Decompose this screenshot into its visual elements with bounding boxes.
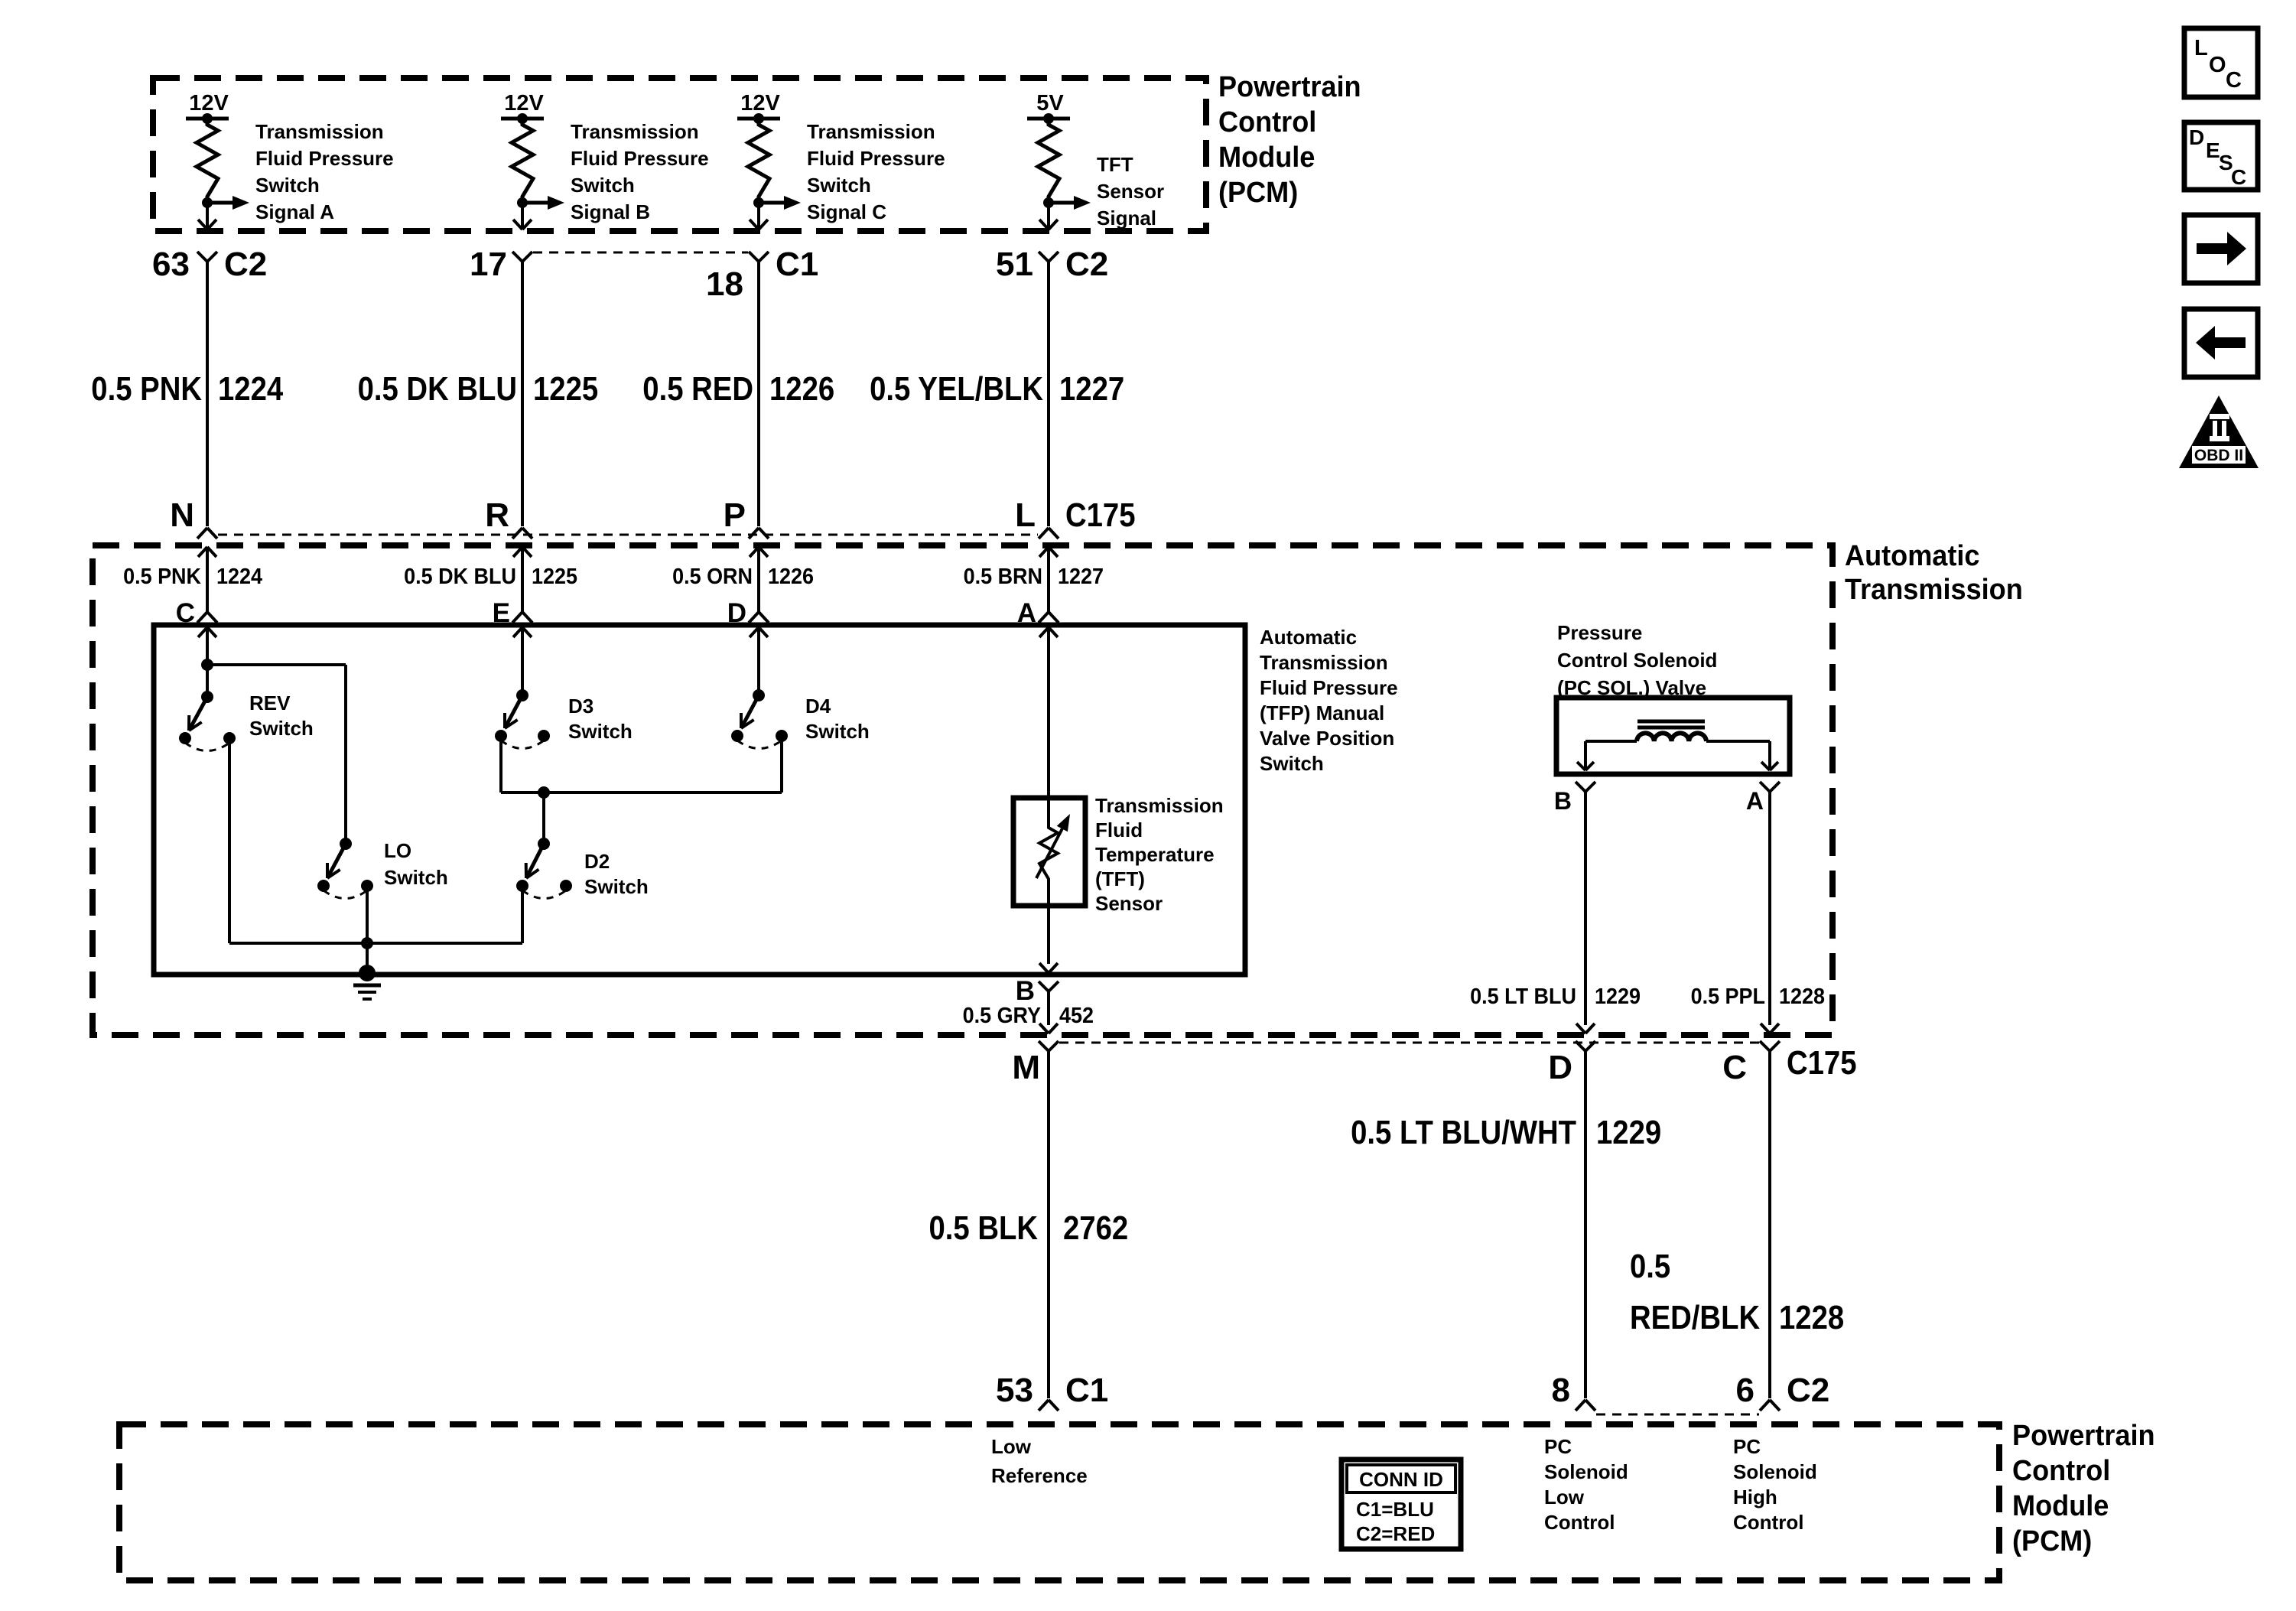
svg-text:Automatic: Automatic xyxy=(1845,540,1980,572)
switch D3 xyxy=(495,689,550,749)
svg-text:B: B xyxy=(1554,787,1572,815)
switch D2 xyxy=(516,838,572,899)
svg-text:C2=RED: C2=RED xyxy=(1356,1522,1435,1545)
svg-text:452: 452 xyxy=(1059,1004,1094,1028)
svg-text:(TFP) Manual: (TFP) Manual xyxy=(1260,701,1384,724)
label Transmission Fluid Pressure Switch Signal B xyxy=(571,120,709,223)
svg-text:Module: Module xyxy=(1218,142,1315,174)
svg-text:TFT: TFT xyxy=(1097,153,1133,176)
svg-text:Reference: Reference xyxy=(991,1464,1088,1487)
resistor R3 (pull-up) xyxy=(748,119,769,203)
switch REV xyxy=(179,691,236,751)
svg-text:E: E xyxy=(2206,138,2220,162)
svg-text:Transmission: Transmission xyxy=(571,120,699,143)
svg-text:Sensor: Sensor xyxy=(1095,892,1163,915)
svg-text:6: 6 xyxy=(1736,1372,1755,1409)
svg-text:O: O xyxy=(2209,53,2226,77)
svg-text:Solenoid: Solenoid xyxy=(1733,1460,1817,1483)
svg-text:1227: 1227 xyxy=(1059,370,1124,408)
svg-text:Switch: Switch xyxy=(384,866,448,889)
signal arrow (Signal A) xyxy=(207,196,249,210)
wire 0.5 DK BLU 1225 into transmission xyxy=(513,547,532,612)
svg-text:C2: C2 xyxy=(1787,1372,1829,1409)
svg-text:1225: 1225 xyxy=(533,370,598,408)
connector C2 pin 8 xyxy=(1552,1372,1595,1411)
svg-text:5V: 5V xyxy=(1036,91,1064,116)
svg-text:Powertrain: Powertrain xyxy=(2012,1420,2155,1452)
svg-text:Transmission: Transmission xyxy=(255,120,384,143)
icon OBD II triangle xyxy=(2179,395,2259,468)
svg-text:2762: 2762 xyxy=(1063,1209,1128,1247)
wire 0.5 LT BLU/WHT 1229 xyxy=(1584,1051,1587,1398)
label 0.5 RED/BLK 1228 xyxy=(1630,1248,1844,1336)
resistor R4 (pull-up) xyxy=(1038,119,1059,203)
label 0.5 LT BLU 1229 xyxy=(1470,984,1641,1009)
svg-text:Switch: Switch xyxy=(805,720,870,743)
svg-text:Control: Control xyxy=(2012,1455,2110,1487)
connector C2 dashed link line xyxy=(1596,1414,1759,1416)
label TFT Sensor Signal xyxy=(1097,153,1164,229)
wire 0.5 DK BLU 1225 xyxy=(521,262,524,526)
svg-text:12V: 12V xyxy=(504,91,544,116)
svg-text:Module: Module xyxy=(2012,1490,2109,1522)
svg-text:Transmission: Transmission xyxy=(1095,794,1224,817)
svg-text:1226: 1226 xyxy=(769,370,834,408)
svg-text:51: 51 xyxy=(996,246,1033,283)
node 5V supply (R4) xyxy=(1027,91,1070,124)
label 0.5 BLK 2762 xyxy=(929,1209,1129,1247)
svg-text:C175: C175 xyxy=(1787,1044,1857,1082)
svg-text:1228: 1228 xyxy=(1779,1299,1844,1336)
svg-text:CONN ID: CONN ID xyxy=(1359,1468,1443,1491)
icon DESC box xyxy=(2184,122,2258,190)
ground xyxy=(353,965,381,999)
svg-text:Temperature: Temperature xyxy=(1095,843,1215,866)
connector C1 dashed link line xyxy=(533,252,748,254)
svg-text:0.5 PNK: 0.5 PNK xyxy=(91,370,202,408)
svg-text:Signal A: Signal A xyxy=(255,200,334,223)
switch LO xyxy=(317,838,373,899)
PCM module box (bottom, dashed) xyxy=(119,1424,1999,1580)
PC solenoid valve box xyxy=(1556,698,1790,774)
wire bus to D2 feed xyxy=(542,792,545,844)
svg-text:D3: D3 xyxy=(568,695,594,718)
wire 0.5 PNK 1224 xyxy=(206,262,209,526)
svg-text:1227: 1227 xyxy=(1058,565,1104,589)
svg-text:L: L xyxy=(2194,36,2208,60)
svg-text:63: 63 xyxy=(152,246,190,283)
wire to PCM pin xyxy=(198,203,216,229)
svg-text:Valve Position: Valve Position xyxy=(1260,727,1394,750)
svg-text:Switch: Switch xyxy=(249,717,314,740)
node 12V supply (R2) xyxy=(501,91,544,124)
svg-text:Signal B: Signal B xyxy=(571,200,650,223)
svg-text:12V: 12V xyxy=(189,91,229,116)
svg-text:A: A xyxy=(1746,787,1764,815)
svg-text:Control: Control xyxy=(1218,106,1316,138)
connector C175 pin P xyxy=(724,496,769,539)
svg-text:0.5 ORN: 0.5 ORN xyxy=(672,565,753,589)
wire to PCM pin xyxy=(1039,203,1058,229)
svg-text:1226: 1226 xyxy=(768,565,814,589)
connector C1 pin 17 xyxy=(470,246,532,283)
icon LOC box xyxy=(2184,28,2258,97)
node junction to LO feed xyxy=(201,659,213,671)
wire 0.5 GRY 452 exits transmission xyxy=(1039,1024,1058,1033)
label 0.5 ORN 1226 xyxy=(672,565,814,589)
svg-text:C: C xyxy=(1722,1049,1747,1086)
wire 0.5 BRN 1227 into transmission xyxy=(1039,547,1058,612)
svg-text:D: D xyxy=(2189,125,2204,149)
svg-text:0.5 LT BLU: 0.5 LT BLU xyxy=(1470,984,1576,1009)
PCM module box (top, dashed) xyxy=(153,78,1206,231)
svg-text:N: N xyxy=(170,496,194,534)
svg-text:0.5 PPL: 0.5 PPL xyxy=(1691,984,1765,1009)
svg-text:(PCM): (PCM) xyxy=(1218,177,1298,209)
svg-text:D4: D4 xyxy=(805,695,831,718)
node junction bus to D2 xyxy=(538,786,550,799)
svg-text:0.5 LT BLU/WHT: 0.5 LT BLU/WHT xyxy=(1351,1114,1576,1151)
svg-text:1225: 1225 xyxy=(532,565,577,589)
connector C1 pin 18 xyxy=(706,246,818,303)
label Transmission Fluid Temperature (TFT) Sensor xyxy=(1095,794,1224,915)
svg-text:0.5: 0.5 xyxy=(1630,1248,1670,1285)
connector TFP pin C xyxy=(176,598,217,628)
svg-text:Switch: Switch xyxy=(807,174,871,197)
svg-text:Fluid Pressure: Fluid Pressure xyxy=(1260,676,1398,699)
PCM label (top right) xyxy=(1218,71,1361,209)
svg-text:Fluid Pressure: Fluid Pressure xyxy=(255,147,394,170)
Automatic Transmission box (dashed) xyxy=(93,545,1833,1035)
svg-text:D: D xyxy=(1548,1049,1572,1086)
svg-text:0.5 BRN: 0.5 BRN xyxy=(964,565,1042,589)
svg-text:0.5 BLK: 0.5 BLK xyxy=(929,1209,1039,1247)
connector C175 pin D xyxy=(1548,1041,1595,1086)
svg-text:Control Solenoid: Control Solenoid xyxy=(1557,649,1717,672)
wire 0.5 LT BLU 1229 xyxy=(1576,792,1595,1033)
connector C2 pin 63 xyxy=(152,246,267,283)
wire coil terminal B xyxy=(1577,741,1637,770)
connector C175 pin L xyxy=(1015,496,1059,539)
wire TFT to pin B with arrow xyxy=(1039,963,1058,973)
resistor R1 (pull-up) xyxy=(197,119,218,203)
svg-text:P: P xyxy=(724,496,746,534)
svg-text:Fluid Pressure: Fluid Pressure xyxy=(807,147,945,170)
node junction R4 output xyxy=(1043,197,1054,208)
label PC Solenoid Low Control xyxy=(1544,1435,1628,1534)
node junction R3 output xyxy=(753,197,764,208)
svg-text:1224: 1224 xyxy=(218,370,284,408)
node junction R2 output xyxy=(517,197,528,208)
connector C175 dashed link line (lower) xyxy=(1059,1042,1759,1044)
label Automatic Transmission Fluid Pressure (TFP) Manual Valve Position Switch xyxy=(1260,626,1398,775)
svg-text:B: B xyxy=(1016,976,1035,1006)
label PC Solenoid High Control xyxy=(1733,1435,1817,1534)
solenoid coil L1 xyxy=(1637,721,1706,741)
label 0.5 PPL 1228 xyxy=(1691,984,1825,1009)
label 0.5 PNK 1224 xyxy=(91,370,283,408)
svg-text:(PCM): (PCM) xyxy=(2012,1525,2092,1557)
TFT sensor box xyxy=(1013,798,1085,906)
connector C175 pin N xyxy=(170,496,217,539)
connector C2 pin 6 xyxy=(1736,1372,1830,1411)
svg-text:REV: REV xyxy=(249,692,291,714)
svg-text:8: 8 xyxy=(1552,1372,1570,1409)
svg-text:1224: 1224 xyxy=(216,565,262,589)
wire 0.5 RED 1226 xyxy=(757,262,760,526)
svg-text:RED/BLK: RED/BLK xyxy=(1630,1299,1760,1336)
svg-text:High: High xyxy=(1733,1486,1777,1508)
svg-text:Transmission: Transmission xyxy=(1260,651,1388,674)
svg-text:M: M xyxy=(1012,1049,1040,1086)
svg-text:PC: PC xyxy=(1544,1435,1572,1458)
wire C into TFP box xyxy=(198,627,216,697)
svg-text:0.5 PNK: 0.5 PNK xyxy=(123,565,201,589)
svg-text:LO: LO xyxy=(384,839,411,862)
svg-text:Sensor: Sensor xyxy=(1097,180,1164,203)
label C175 xyxy=(1065,496,1136,534)
svg-text:Fluid: Fluid xyxy=(1095,819,1143,841)
svg-text:0.5 YEL/BLK: 0.5 YEL/BLK xyxy=(870,370,1043,408)
label D3 Switch xyxy=(568,695,633,743)
label 0.5 PNK 1224 xyxy=(123,565,262,589)
resistor R2 (pull-up) xyxy=(512,119,533,203)
svg-text:Low: Low xyxy=(991,1435,1032,1458)
svg-text:PC: PC xyxy=(1733,1435,1761,1458)
connector C2 pin 51 xyxy=(996,246,1108,283)
wire 0.5 RED/BLK 1228 xyxy=(1768,1051,1771,1398)
wire 0.5 ORN 1226 into transmission xyxy=(750,547,768,612)
connector TFP pin B xyxy=(1016,976,1059,1025)
wire 0.5 PPL 1228 xyxy=(1761,792,1779,1033)
svg-text:53: 53 xyxy=(996,1372,1033,1409)
svg-text:12V: 12V xyxy=(740,91,780,116)
label D2 Switch xyxy=(584,850,649,898)
svg-text:Transmission: Transmission xyxy=(1845,574,2023,606)
label Automatic Transmission xyxy=(1845,540,2023,606)
svg-text:D2: D2 xyxy=(584,850,610,873)
wire 0.5 BLK 2762 xyxy=(1047,1051,1050,1398)
wire junction to LO switch feed xyxy=(207,665,346,844)
wire 0.5 YEL/BLK 1227 xyxy=(1047,262,1050,526)
connector C1 pin 53 xyxy=(996,1372,1108,1411)
svg-text:C2: C2 xyxy=(224,246,267,283)
svg-text:C: C xyxy=(2226,68,2242,93)
wire D3 output to bus xyxy=(501,736,782,792)
signal arrow (Signal) xyxy=(1049,196,1091,210)
wire A into TFP box (TFT feed) xyxy=(1039,627,1058,798)
connector TFP pin D xyxy=(727,598,769,628)
wire D4 output to bus xyxy=(780,736,783,792)
svg-text:Switch: Switch xyxy=(584,875,649,898)
svg-text:Fluid Pressure: Fluid Pressure xyxy=(571,147,709,170)
label Transmission Fluid Pressure Switch Signal A xyxy=(255,120,394,223)
node 12V supply (R3) xyxy=(737,91,780,124)
svg-text:Signal C: Signal C xyxy=(807,200,886,223)
svg-text:0.5 DK BLU: 0.5 DK BLU xyxy=(404,565,516,589)
label 0.5 YEL/BLK 1227 xyxy=(870,370,1124,408)
svg-text:0.5 RED: 0.5 RED xyxy=(642,370,753,408)
svg-text:0.5 GRY: 0.5 GRY xyxy=(963,1004,1041,1028)
svg-text:Solenoid: Solenoid xyxy=(1544,1460,1628,1483)
svg-text:1229: 1229 xyxy=(1595,984,1641,1009)
svg-text:1228: 1228 xyxy=(1779,984,1825,1009)
label Transmission Fluid Pressure Switch Signal C xyxy=(807,120,945,223)
svg-text:Pressure: Pressure xyxy=(1557,621,1642,644)
CONN ID legend box xyxy=(1342,1460,1461,1549)
icon arrow left box xyxy=(2184,309,2258,377)
svg-text:Control: Control xyxy=(1733,1511,1803,1534)
wire E into TFP box xyxy=(513,627,532,695)
TFT sensor (thermistor) xyxy=(1036,798,1070,964)
signal arrow (Signal C) xyxy=(759,196,801,210)
label 0.5 GRY 452 xyxy=(963,1004,1094,1028)
connector C175 pin R xyxy=(485,496,532,539)
label 0.5 BRN 1227 xyxy=(964,565,1104,589)
connector TFP pin E xyxy=(493,598,532,628)
svg-text:Powertrain: Powertrain xyxy=(1218,71,1361,103)
wire 0.5 PNK 1224 into transmission xyxy=(198,547,216,612)
wire LO output to ground xyxy=(366,886,369,973)
label Low Reference xyxy=(991,1435,1088,1487)
svg-text:C2: C2 xyxy=(1065,246,1108,283)
label C175 xyxy=(1787,1044,1857,1082)
PCM label (bottom right) xyxy=(2012,1420,2155,1557)
svg-text:C1: C1 xyxy=(1065,1372,1108,1409)
svg-text:Automatic: Automatic xyxy=(1260,626,1357,649)
label LO Switch xyxy=(384,839,448,889)
svg-text:Signal: Signal xyxy=(1097,207,1156,229)
wire D into TFP box xyxy=(750,627,768,695)
icon arrow right box xyxy=(2184,215,2258,283)
connector solenoid pin A xyxy=(1746,782,1780,815)
svg-text:R: R xyxy=(485,496,509,534)
node junction LO/REV bus xyxy=(361,937,373,949)
node 12V supply (R1) xyxy=(186,91,229,124)
wire to PCM pin xyxy=(513,203,532,229)
svg-text:Switch: Switch xyxy=(1260,752,1324,775)
label 0.5 DK BLU 1225 xyxy=(404,565,577,589)
svg-text:(TFT): (TFT) xyxy=(1095,867,1145,890)
svg-text:L: L xyxy=(1015,496,1036,534)
svg-text:0.5 DK BLU: 0.5 DK BLU xyxy=(358,370,517,408)
connector C175 pin C xyxy=(1722,1041,1780,1086)
label 0.5 DK BLU 1225 xyxy=(358,370,599,408)
svg-text:Switch: Switch xyxy=(571,174,635,197)
svg-text:Control: Control xyxy=(1544,1511,1615,1534)
connector TFP pin A xyxy=(1017,598,1059,628)
svg-text:C1=BLU: C1=BLU xyxy=(1356,1498,1434,1521)
svg-text:17: 17 xyxy=(470,246,507,283)
connector C175 dashed link line xyxy=(218,534,1038,536)
wire to PCM pin xyxy=(750,203,768,229)
svg-text:18: 18 xyxy=(706,265,743,303)
signal arrow (Signal B) xyxy=(522,196,564,210)
TFP manual valve position switch box xyxy=(154,625,1245,975)
label Pressure Control Solenoid (PC SOL.) Valve xyxy=(1557,621,1717,699)
label REV Switch xyxy=(249,692,314,740)
svg-text:Switch: Switch xyxy=(568,720,633,743)
wire coil terminal A xyxy=(1706,741,1778,770)
connector solenoid pin B xyxy=(1554,782,1595,815)
svg-text:C1: C1 xyxy=(776,246,818,283)
label D4 Switch xyxy=(805,695,870,743)
label 0.5 LT BLU/WHT 1229 xyxy=(1351,1114,1661,1151)
node junction R1 output xyxy=(202,197,213,208)
switch D4 xyxy=(731,689,788,749)
svg-text:OBD II: OBD II xyxy=(2194,447,2243,464)
wire REV output to D2 xyxy=(229,738,522,943)
svg-text:Low: Low xyxy=(1544,1486,1585,1508)
svg-text:Switch: Switch xyxy=(255,174,320,197)
svg-text:C175: C175 xyxy=(1065,496,1136,534)
label 0.5 RED 1226 xyxy=(642,370,834,408)
svg-text:Transmission: Transmission xyxy=(807,120,935,143)
svg-text:1229: 1229 xyxy=(1596,1114,1661,1151)
svg-text:C: C xyxy=(2231,165,2246,189)
connector C175 pin M xyxy=(1012,1041,1059,1086)
